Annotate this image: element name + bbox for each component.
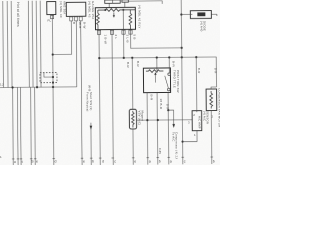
node: y58 junction x182 — [181, 56, 183, 58]
node: y58 junction x169.5 — [168, 56, 170, 58]
resistor zigzag inside VSV — [131, 111, 134, 128]
motor winding zigzag — [210, 91, 213, 109]
wire: pin1 down then left to x54 — [52, 21, 71, 55]
pin: relay bottom pin 3 wire — [122, 29, 124, 57]
switch contact circle bottom — [167, 88, 170, 91]
wire: diode left lead — [181, 13, 192, 15]
thermo switch box — [143, 68, 170, 93]
node: y58 junction x132.5 — [131, 57, 133, 59]
node: diode tap junction — [180, 13, 182, 15]
wire: switch top stub 2 — [168, 57, 170, 72]
wire: lower-left drop 2 — [16, 87, 19, 165]
A/C amplifier box — [192, 111, 202, 131]
wire: left vertical bus 2 — [6, 1, 9, 87]
wire: pin3 long drop to bottom — [81, 21, 82, 165]
wire: main horizontal bus y58 — [99, 57, 216, 88]
fuse box B (top, with 3 pins) — [66, 2, 86, 16]
connector row at bottom: small ticks on each wire — [12, 157, 213, 159]
pin: fusible link bottom pin — [51, 15, 54, 18]
wire: from neutral start switch (off-page feed) — [90, 123, 92, 165]
node: y58 junction x157 — [156, 56, 158, 58]
pin: relay bottom pin 2 wire — [112, 30, 113, 165]
connector: dashed check-connector box — [40, 73, 57, 83]
wire: switch bottom right drop — [167, 92, 170, 164]
wire: motor top feed jog — [211, 87, 217, 89]
wire: horizontal bus left y86 — [0, 86, 77, 89]
pin 3 of fuse box — [79, 17, 82, 21]
arrow: wiper arrow — [154, 74, 156, 82]
wire: A/C amp bottom link — [182, 131, 197, 142]
text labels layer — [0, 1, 221, 164]
wire: switch bottom left long drop — [146, 93, 149, 165]
pin 1 of fuse box — [70, 17, 73, 21]
wire: left vertical bus 3 — [10, 1, 13, 87]
node: junction x53 y76.5 — [52, 76, 54, 78]
wire: motor bottom drop — [210, 111, 213, 164]
node: junction on y86 bus at x12.5 — [11, 86, 13, 88]
relay coil (left zigzag) — [96, 10, 99, 30]
wire: left vertical bus 5 — [31, 1, 34, 87]
node: relay internal junction — [104, 9, 106, 11]
wire: left vertical bus 7 — [39, 1, 42, 87]
relay contact resistor (right zigzag) — [129, 10, 132, 30]
wire: lower-left drop 3 — [19, 87, 22, 165]
diode element — [197, 12, 205, 16]
wire: left vertical bus 4 — [27, 1, 30, 87]
pin: relay top pin B — [122, 0, 129, 2]
node: junction x53 y82 — [52, 81, 54, 83]
wire: right main vertical x182 — [181, 0, 183, 164]
node: junctions on tap at x147 and x157.4 — [146, 119, 148, 121]
node: junction x168 y110.7 — [167, 109, 169, 111]
pin 2 of fuse box — [74, 17, 77, 21]
node: junction x182 y48.5 — [181, 47, 183, 49]
node: y58 junction x99.5 — [98, 57, 100, 59]
node: junction on y86 bus at x37 — [36, 86, 38, 88]
wire: branch to compressor arrow — [168, 110, 173, 124]
node: junction on y86 bus at x53 — [52, 86, 54, 88]
diode box (noise filter) — [190, 11, 211, 19]
wire: switch bottom mid drop — [156, 93, 159, 165]
wire: VSV bottom drop — [132, 129, 134, 165]
condenser fan motor box — [206, 89, 217, 111]
wire: relay top jumper to right edge — [128, 1, 162, 4]
wire: stub inside dashed connector — [44, 73, 53, 78]
pin: relay bottom pin 4 wire to right bus — [130, 29, 181, 48]
wire: diode right lead — [211, 13, 216, 15]
wire: from F1 down — [52, 15, 53, 166]
wire: pin2 down to y86 bus — [75, 21, 78, 87]
wire: left vertical bus 1 — [2, 1, 5, 87]
node: junction x53 y54 — [52, 53, 54, 55]
fusible link box F1 (top left) — [47, 2, 56, 15]
switch blade — [165, 76, 169, 89]
arrow: continuation arrow on neutral-start wire — [90, 126, 93, 130]
pin: relay bottom pin 1 wire — [99, 30, 100, 165]
node: junction x182 y142.3 — [181, 140, 183, 142]
arrow: to A/C compressor — [172, 124, 175, 128]
wire: left vertical bus 6 — [35, 1, 38, 87]
switch resistor zigzag — [146, 70, 164, 73]
wire: VSV top feed — [131, 58, 133, 109]
arrow: relay armature arrow — [113, 12, 115, 15]
relay box (cooling fan relay) — [95, 7, 135, 29]
resistor component (VSV) — [129, 109, 136, 129]
node: y58 junction x196.5 — [195, 56, 197, 58]
wire: lower-left drop 1 — [12, 87, 15, 165]
node: y58 junction x124 — [123, 57, 125, 59]
pin: relay top pin A — [105, 0, 121, 3]
relay internal resistor (horizontal zigzag) — [98, 8, 135, 11]
wire: switch top stub 1 — [156, 58, 158, 71]
switch contact circle top — [168, 73, 171, 76]
wire: A/C amp top feed — [195, 57, 198, 112]
wire: VSV tap horizontal y120.5 — [137, 119, 193, 122]
